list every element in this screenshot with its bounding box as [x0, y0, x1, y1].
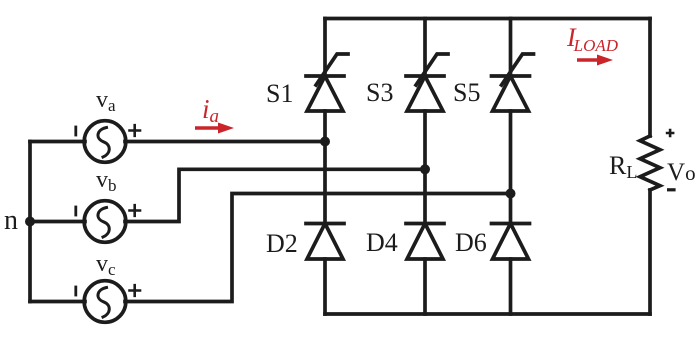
plus sign of va — [130, 125, 141, 136]
source vc — [84, 281, 126, 323]
plus sign of vb — [130, 205, 141, 216]
wire: leg 1 middle (S1 to D2) — [323, 111, 327, 224]
svg-text:S5: S5 — [453, 78, 480, 107]
wire: leg 2 upper (rail to S3) — [423, 19, 427, 77]
wire: phase c to bridge — [125, 194, 511, 302]
current arrow i_a (red) — [195, 123, 234, 134]
wire: bottom rail — [325, 312, 650, 316]
svg-text:D2: D2 — [266, 229, 298, 258]
thyristor S1 — [306, 54, 348, 111]
minus tick of va — [74, 127, 77, 135]
svg-text:va: va — [96, 87, 116, 115]
node b junction dot — [420, 164, 430, 174]
wire: leg 3 upper (rail to S5) — [509, 19, 513, 77]
plus sign of vc — [130, 285, 141, 296]
current arrow I_LOAD (red) — [577, 55, 613, 66]
svg-text:S1: S1 — [266, 79, 293, 108]
wire: leg 3 lower (D6 to bottom rail) — [509, 259, 513, 314]
plus sign of load — [666, 129, 675, 138]
svg-text:Vo: Vo — [667, 159, 696, 186]
wire: vc left lead — [30, 300, 85, 304]
wire: va left lead — [30, 140, 85, 144]
svg-text:D6: D6 — [455, 228, 487, 257]
wire: phase b to bridge — [125, 169, 425, 221]
svg-text:D4: D4 — [366, 228, 398, 257]
wire: right rail lower (load to bottom rail) — [648, 190, 652, 314]
wire: leg 2 lower (D4 to bottom rail) — [423, 259, 427, 314]
thyristor S5 — [492, 54, 534, 111]
svg-text:ia: ia — [202, 94, 219, 127]
wire: right rail upper (to load) — [648, 19, 652, 137]
diode D4 — [406, 224, 444, 260]
wire: leg 2 middle (S3 to D4) — [423, 111, 427, 224]
diode D6 — [492, 224, 530, 260]
wire: left neutral bus — [28, 142, 32, 302]
minus sign of load — [667, 188, 676, 191]
svg-text:S3: S3 — [366, 78, 393, 107]
minus tick of vc — [74, 287, 77, 295]
wire: leg 3 middle (S5 to D6) — [509, 111, 513, 224]
node n junction dot — [25, 217, 35, 227]
svg-text:ILOAD: ILOAD — [566, 23, 619, 55]
svg-text:vb: vb — [96, 167, 117, 195]
wire: leg 1 lower (D2 to bottom rail) — [323, 259, 327, 314]
svg-text:vc: vc — [96, 251, 116, 279]
diode D2 — [306, 224, 344, 260]
source vb — [84, 201, 126, 243]
wire: phase a to bridge — [125, 140, 325, 144]
node a junction dot — [320, 137, 330, 147]
thyristor S3 — [406, 54, 448, 111]
svg-text:RL: RL — [609, 151, 637, 182]
wire: vb left lead — [30, 220, 85, 224]
wire: leg 1 upper (rail to S1) — [323, 19, 327, 77]
wire: top positive rail — [325, 17, 650, 21]
minus tick of vb — [74, 207, 77, 215]
source va — [84, 121, 126, 163]
node c junction dot — [506, 189, 516, 199]
svg-text:n: n — [4, 205, 18, 236]
resistor R_L — [640, 136, 660, 190]
